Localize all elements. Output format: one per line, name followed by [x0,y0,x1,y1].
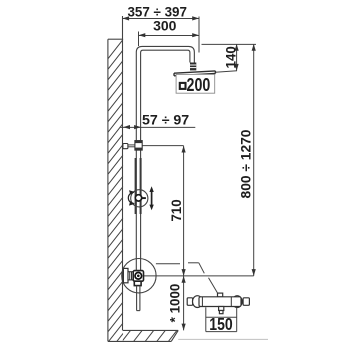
svg-text:* 1000: * 1000 [167,284,182,323]
svg-text:800 ÷ 1270: 800 ÷ 1270 [239,129,254,198]
svg-text:300: 300 [153,17,177,33]
svg-text:140: 140 [223,46,238,68]
svg-text:150: 150 [209,314,232,334]
svg-text:200: 200 [187,75,211,95]
svg-text:57 ÷ 97: 57 ÷ 97 [142,112,189,128]
svg-text:710: 710 [169,199,184,221]
